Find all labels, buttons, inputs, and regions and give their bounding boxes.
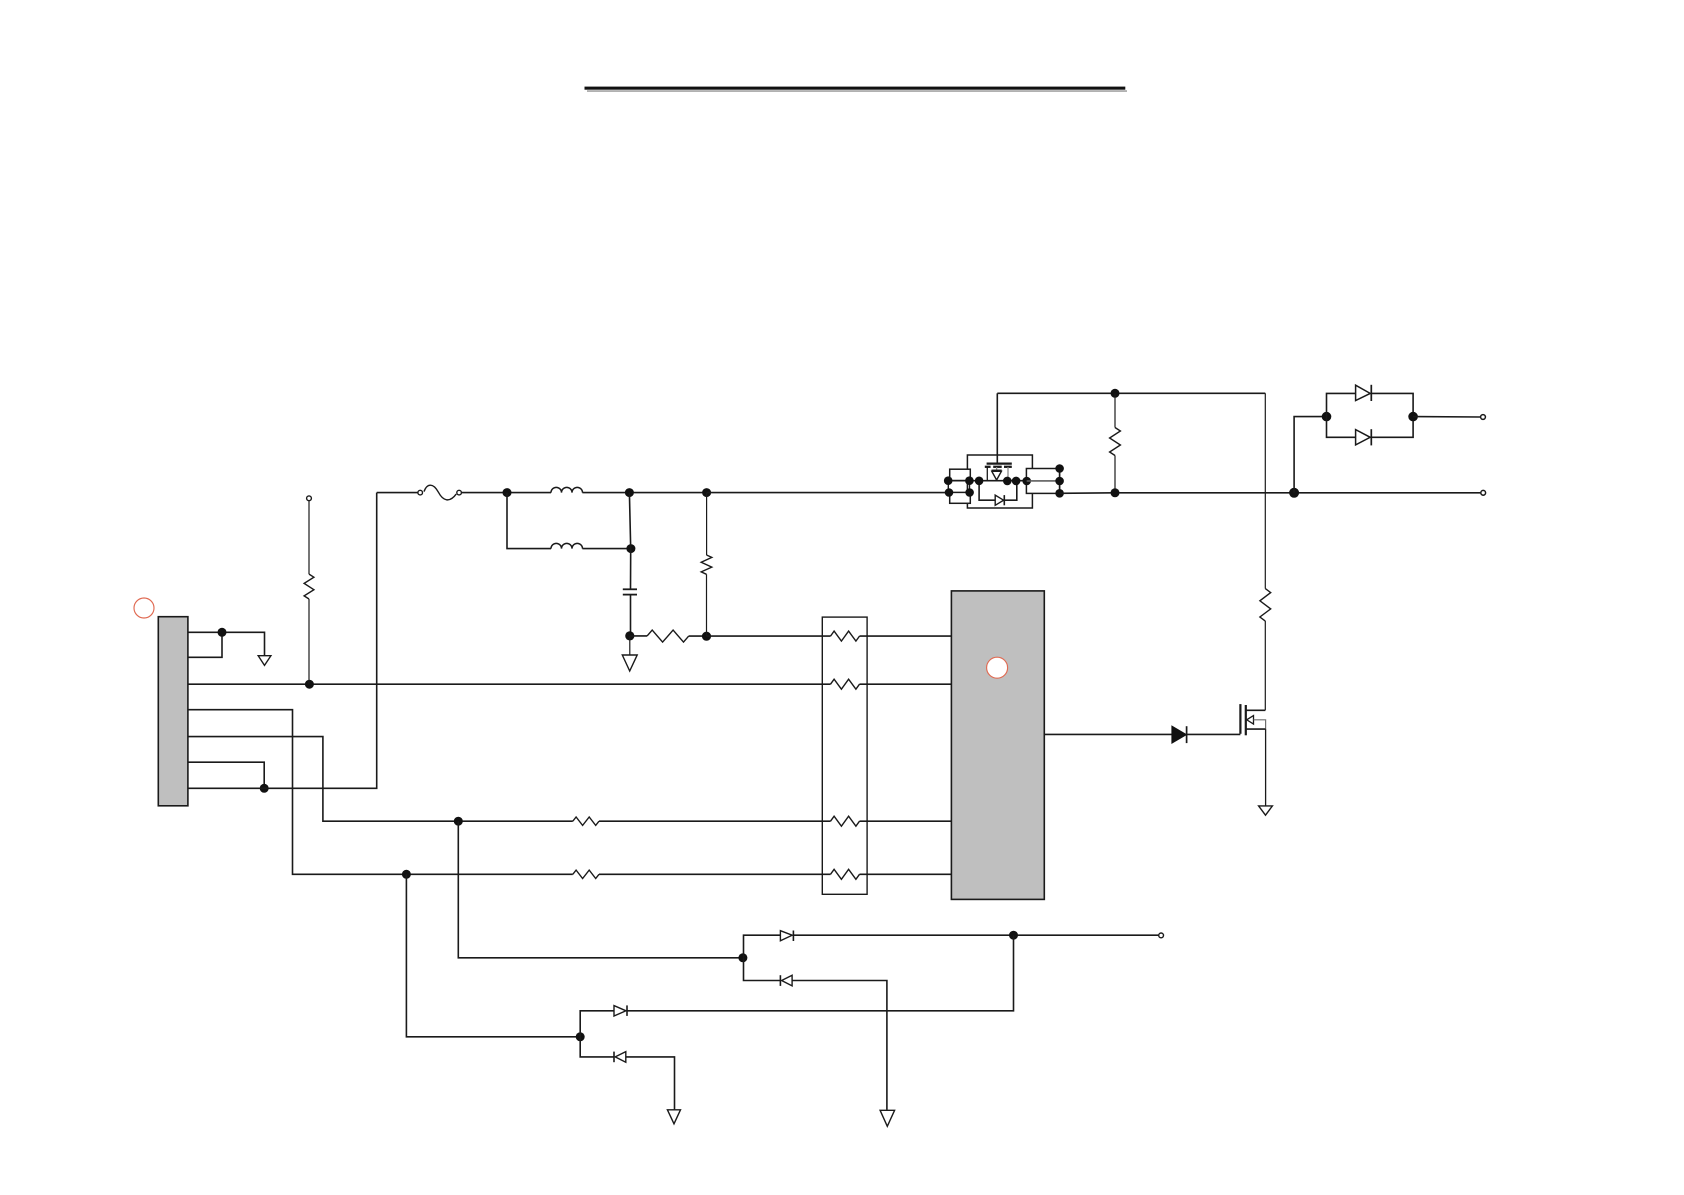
wire to terminal [1413,416,1480,418]
wire Q1 gate riser [996,393,998,463]
node L1 right [625,488,634,497]
ground (C1) [629,636,631,655]
resistor R11 (pin5 series) [573,817,599,825]
resistor RN1-c [831,816,860,826]
wire node to RN1 row1 [707,635,831,637]
revision mark circle on U1 [987,657,1008,678]
wire fuse to L1 [462,492,552,494]
node diode pair left [1322,412,1332,422]
diode D6 [614,1006,626,1016]
node L1 left [503,488,512,497]
mosfet Q2 drain stub [1246,709,1266,711]
resistor R3 [701,555,712,574]
wire D6 to D4 net [627,935,1014,1011]
node R3 top [702,488,711,497]
resistor R2 [647,630,689,642]
wire D4 branch [744,935,781,958]
node RS2 left [945,488,954,497]
wire pin4 to RN1 [599,873,831,875]
node Q1 drain stub [1003,477,1012,486]
mosfet Q1 body-diode bar [992,469,1002,471]
wire L2 to node [582,548,631,550]
mosfet Q1 right stub [1007,467,1009,481]
resistor R4 [1110,428,1121,456]
resistor R4 leads [1114,393,1116,427]
mosfet Q1 gate bar [987,462,1012,464]
sense resistor RS4 (lower right box) [1026,481,1059,493]
wire L1 to node [582,492,706,494]
terminal OUT2 [1481,415,1486,420]
wire R3 top lead [706,493,708,555]
wire drain chain [1264,393,1266,588]
wire D4 to terminal [793,934,1158,936]
wire pin5 to RN1 [599,820,831,822]
diode D2 [1356,430,1371,445]
terminal OUT+ [1481,490,1486,495]
inductor L1 [551,487,583,492]
node net5 split [738,953,747,962]
title underline [585,87,1126,90]
resistor RN1-d [831,869,860,879]
wire U1 output [1044,733,1172,735]
ground (net4) [667,1110,680,1124]
ground (pin1) [258,656,271,666]
dual-FET module Q1 outer box [967,455,1032,508]
connector J1 [158,617,188,806]
resistor R1 [304,574,314,599]
node Q1 source [975,477,984,486]
sense resistor RS1 (upper left box) [950,469,971,480]
mosfet Q1 body-diode stub [996,467,998,470]
node D8 cathode [1012,477,1021,486]
wire net4 drop [406,874,580,1037]
wire L2 branch [507,493,551,549]
wire output rail [1060,492,1481,495]
wire RS3/RS4 right link [1059,469,1061,494]
wire pin7 of J1 (to AC rail) [188,493,377,789]
wire R5 to Q2 drain [1264,621,1266,710]
wire RN1-d to U1 [860,873,952,875]
wire R3 bottom lead [706,574,708,636]
diode D5 [779,975,781,986]
node RS4 right [1055,489,1064,498]
diode D4 [780,931,792,941]
diode D3 [1172,726,1186,743]
ground (net5) [880,1110,895,1126]
wire RN1-a to U1 [860,635,952,637]
revision mark circle A [134,598,154,618]
IC U1 [951,591,1044,900]
wire AC rail left [377,492,418,494]
node pin6/pin7 junction [260,784,269,793]
mosfet Q2 body arrow [1247,716,1254,725]
resistor network RN1 box [822,617,867,894]
node L2 right [626,544,635,553]
wire Q1 sense link [948,480,1026,482]
resistor RN1-a [831,631,860,641]
wire D2 to node [1371,417,1413,438]
node RS3 left [1022,477,1031,486]
wire D7 branch [580,1037,614,1057]
wire pin2 of J1 [188,632,222,657]
node pin1/pin2 junction [218,628,227,637]
node RS3 top right [1055,464,1064,473]
mosfet Q2 channel bar [1245,705,1247,735]
node R4 bottom [1111,488,1120,497]
node R4 top [1111,389,1120,398]
capacitor C1 [623,588,637,590]
node RS3 bottom right [1055,477,1064,486]
wire D7 to ground [626,1057,675,1110]
sense resistor RS3 (upper right box) [1026,469,1059,482]
mosfet Q2 gate bar [1239,704,1241,734]
resistor R10 (pin4 series) [573,870,599,878]
mosfet Q1 channel segments [985,466,991,468]
resistor RN1-b [831,679,860,689]
wire D2 branch [1327,417,1356,438]
wire Q2 source to ground [1265,729,1267,805]
wire top aux rail [997,392,1265,394]
wire D3 to Q2 gate [1187,733,1241,735]
terminal TP1 [307,496,312,501]
wire R1 to pin3 net [308,599,310,684]
wire RS1/RS2 right link [969,481,971,493]
wire pin1 of J1 [188,632,265,655]
fuse F1 [418,490,423,495]
wire node to C1 [629,493,630,589]
wire pin3 of J1 (long horizontal net) [188,683,831,685]
mosfet Q2 source stub [1246,728,1266,730]
node RS1 right [965,476,974,485]
wire node to R2 [630,635,647,637]
node RS2 right [965,488,974,497]
diode D8 loop (second FET body) [979,481,995,500]
wire rail to Q1 [707,492,949,494]
wire to diode pair [1294,417,1326,493]
wire pin4 of J1 [188,710,573,875]
node pin4 branch [402,870,411,879]
wire pin6 of J1 [188,762,264,788]
node diode pair right [1408,412,1418,422]
wire D1 to node [1371,393,1413,416]
terminal SIG [1159,933,1164,938]
node D4/D6 join [1009,931,1018,940]
node C1 bottom [625,631,634,640]
resistor R5 [1260,589,1271,621]
wire D5 branch [744,958,781,981]
diode D7 [613,1052,615,1063]
node output branch [1289,488,1299,498]
wire RS1/RS2 left link [947,481,949,493]
wire C1 to node [630,595,632,636]
wire D6 branch [580,1011,614,1037]
diode D1 [1356,385,1371,400]
wire TP1 to R1 [308,501,310,574]
wire RN1-b to U1 [860,683,952,685]
wire RN1-c to U1 [860,820,952,822]
ground (Q2 source) [1259,806,1273,815]
mosfet Q1 body-diode triangle [992,471,1002,480]
wire pin5 of J1 [188,737,573,822]
wire net5 drop [458,821,743,958]
node net4 split [576,1032,585,1041]
wire D1 branch [1327,393,1356,416]
node pin5 branch [454,817,463,826]
sense resistor RS2 (lower left box) [950,492,971,503]
mosfet Q1 left stub [986,467,988,481]
node pin3 / R1 junction [305,680,314,689]
wire R2 to node [689,635,707,637]
wire RS3/RS4 mid link [1027,480,1060,482]
node RS1 left [944,476,953,485]
wire D5 to ground [792,981,887,1110]
node R2/R3 [702,632,711,641]
inductor L2 [551,543,583,548]
